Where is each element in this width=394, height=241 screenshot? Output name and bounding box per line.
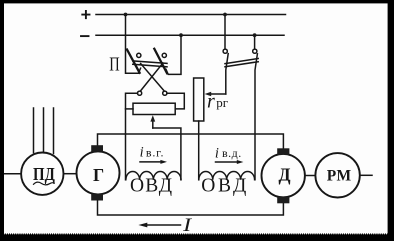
frame bottom bar with sawtooth edge	[0, 233, 394, 241]
frame top bar	[0, 0, 394, 3]
frame right bar	[388, 0, 394, 241]
machine G (generator)	[77, 151, 120, 194]
wire positive bus	[96, 14, 286, 16]
wire P cross link upper-left to lower-right	[141, 64, 165, 92]
svg-text:РМ: РМ	[327, 168, 352, 185]
svg-text:в.д.: в.д.	[222, 146, 242, 160]
right switch crossbar double line	[225, 59, 258, 67]
potentiometer body	[133, 103, 175, 114]
junction dot bus+ / switch P left lead	[124, 13, 128, 17]
right switch right contact	[253, 49, 257, 53]
node - (negative bus label)	[81, 35, 89, 37]
wire wiper to generator field coil right end	[153, 128, 181, 180]
switch P upper contact left	[137, 53, 141, 57]
wire from P lower-right contact to potentiometer right end	[167, 93, 184, 109]
svg-text:рг: рг	[216, 95, 228, 110]
wire potentiometer left stub	[126, 108, 134, 110]
right switch left contact	[223, 49, 227, 53]
arrow i_v.d.	[216, 161, 239, 163]
arrow current I	[145, 224, 181, 226]
wire negative bus	[96, 34, 284, 36]
switch P upper contact right	[162, 53, 166, 57]
svg-text:Д: Д	[278, 164, 290, 184]
wire from P lower-left contact to armature rail	[126, 93, 138, 134]
svg-text:i: i	[140, 145, 144, 161]
wire armature bottom rail G to D	[98, 201, 284, 216]
node + (positive bus label)	[82, 11, 89, 18]
svg-text:в.г.: в.г.	[146, 146, 164, 160]
machine D (motor)	[262, 154, 305, 197]
right switch right blade	[255, 54, 257, 180]
svg-text:ПД: ПД	[33, 164, 55, 184]
shaft line left of PD	[5, 173, 22, 175]
switch P right blade	[154, 49, 167, 73]
svg-text:П: П	[109, 54, 119, 76]
shaft D to RM	[305, 175, 315, 177]
machine PD (prime mover)	[21, 153, 63, 195]
wire right switch to rheostat wiper arrow	[209, 93, 226, 95]
wire P switch right lead from - bus	[166, 35, 181, 74]
svg-text:Г: Г	[93, 165, 104, 185]
svg-text:ОВД: ОВД	[201, 175, 246, 196]
junction dot bus+ / right switch left lead	[223, 13, 227, 17]
switch P left blade	[127, 50, 140, 73]
generator field coil OVD	[126, 172, 181, 180]
brush G top	[91, 145, 103, 151]
brush G bottom	[91, 194, 103, 200]
junction dot bus- / switch P right lead	[179, 33, 183, 37]
arrow i_v.g.	[140, 161, 162, 163]
svg-text:i: i	[215, 146, 219, 162]
shaft PD to G	[64, 173, 77, 175]
right switch right lead from - bus	[254, 35, 256, 49]
wire rheostat bottom lead to motor field coil left end	[198, 121, 200, 180]
wire armature top rail G to D	[98, 134, 284, 148]
right switch left lead from + bus	[224, 15, 226, 50]
switch P crossbar double line	[133, 61, 167, 67]
shaft right of RM	[360, 174, 372, 176]
switch P lower contact right	[163, 91, 167, 95]
svg-text:I: I	[182, 216, 192, 236]
right switch left blade	[226, 54, 228, 94]
machine RM (working machine)	[315, 153, 359, 197]
brush D top	[277, 148, 289, 154]
wire P cross link upper-right to lower-left	[140, 63, 163, 91]
switch P lower contact left	[138, 91, 142, 95]
junction dot bus- / right switch right lead	[253, 33, 257, 37]
potentiometer wiper arrow	[152, 120, 154, 129]
svg-text:ОВД: ОВД	[130, 175, 172, 196]
brush D bottom	[277, 197, 289, 203]
three-phase supply lines to PD	[34, 108, 54, 154]
wire generator field coil left terminal	[125, 134, 127, 180]
motor field coil OVD	[199, 171, 255, 179]
rheostat r_rg body	[194, 78, 204, 121]
frame left bar	[0, 0, 4, 241]
wire P switch left lead from + bus	[126, 15, 141, 74]
